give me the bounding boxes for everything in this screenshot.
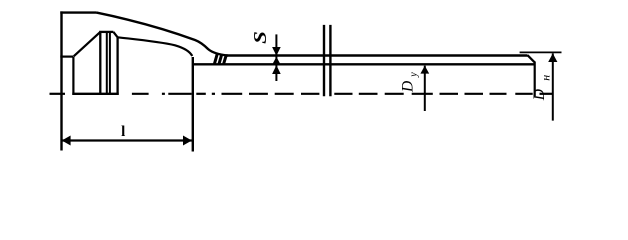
dimension l left arrow [62,136,71,146]
pipe break mark line 1 [323,25,325,96]
svg-text:н: н [539,75,553,81]
svg-text:S: S [250,31,270,44]
caulking hatch band 1 [214,53,226,65]
pipe top outer line [226,54,528,56]
dimension S leader line [275,34,277,81]
rib right slant [113,32,117,37]
label Dn [531,75,553,102]
socket outer sloping profile [97,13,229,56]
caulking hatch band 3 [223,55,226,65]
rib inner vertical 2 [109,32,111,95]
socket bottom solid segment [72,93,118,95]
svg-text:у: у [408,72,419,78]
svg-text:D: D [531,89,548,101]
socket right face / extension line [192,57,194,152]
dimension Dn arrow [548,53,557,62]
rib left vertical [99,32,101,95]
dimension Dy leader line [424,66,426,111]
svg-text:l: l [121,124,125,140]
dimension Dn leader line [552,53,554,120]
pipe end chamfer [528,55,535,62]
label Dy [399,72,419,93]
socket inner gentle slope [118,37,193,56]
rib top edge [99,31,113,33]
dimension S middle arrow [272,57,281,65]
socket bell top edge [60,11,96,13]
dimension Dn extension line [520,51,562,53]
rib right vertical [116,37,118,95]
centerline axis dashes [50,93,553,95]
socket inner steep slope [74,32,101,56]
rib inner vertical 1 [106,32,108,95]
pipe inner line [193,63,535,65]
dimension S lower arrow [272,65,281,74]
socket mouth inner tick [60,55,73,57]
socket bell left face / extension line [60,11,62,150]
caulking hatch band 2 [219,54,222,65]
dimension l right arrow [183,136,192,146]
dimension l line [62,139,192,141]
pipe end face [534,62,536,97]
pipe break mark line 2 [329,25,331,96]
socket mouth inner vertical wall [72,57,74,95]
dimension S upper arrow [272,47,281,56]
svg-text:D: D [399,81,416,93]
dimension Dy arrow [420,66,429,74]
